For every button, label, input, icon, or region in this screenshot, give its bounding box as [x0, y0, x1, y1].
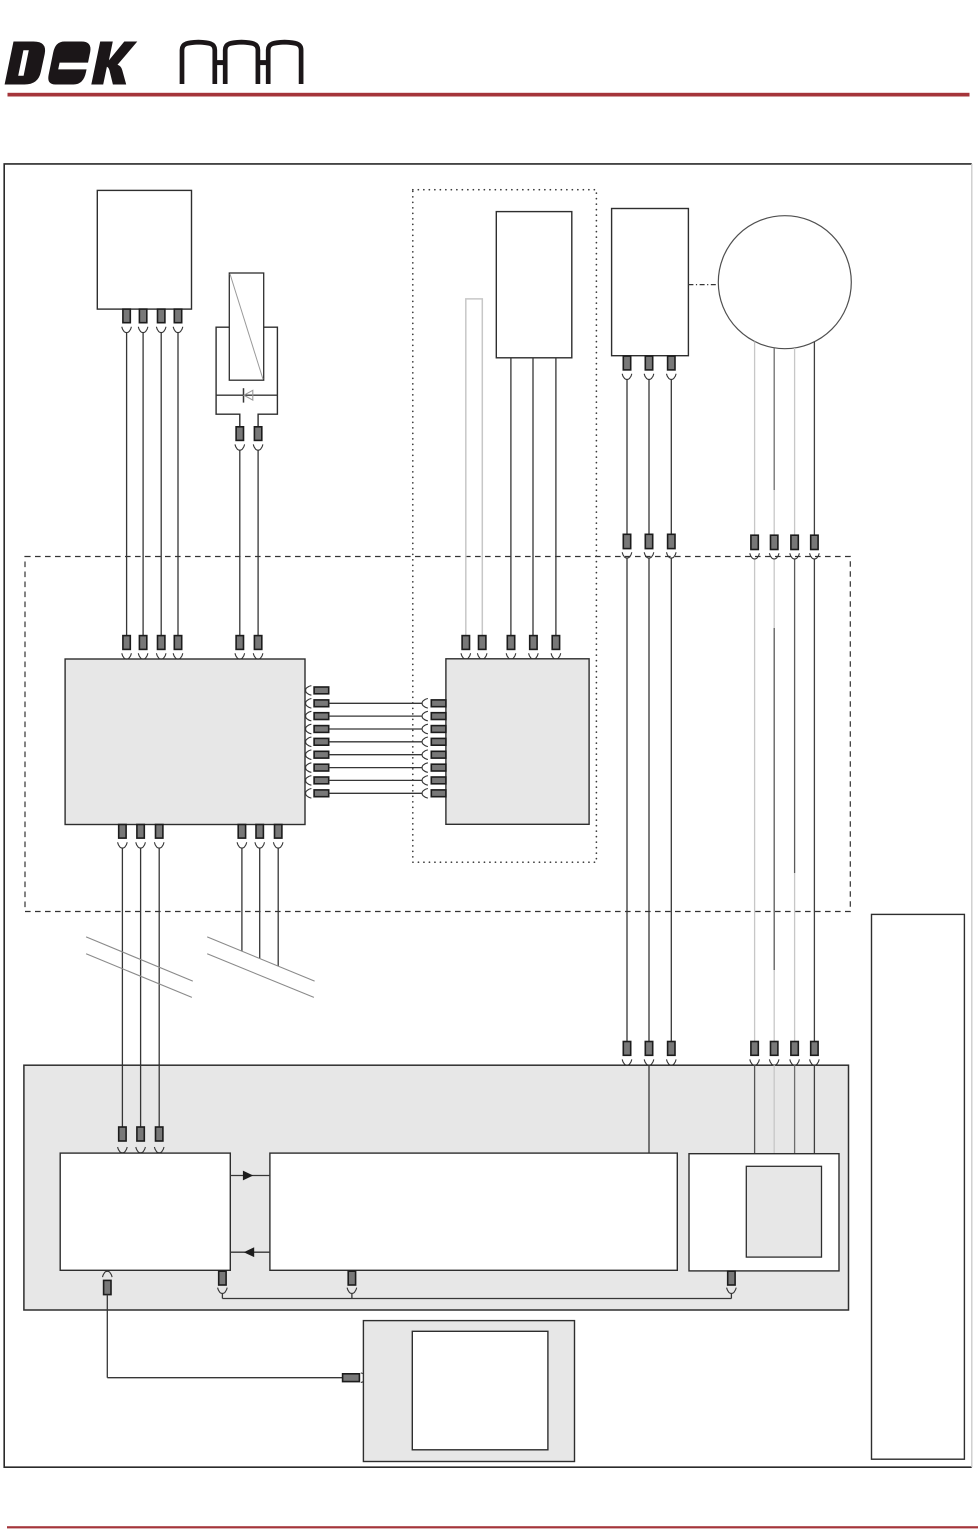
- gray box G2 (controller PCB): [446, 659, 589, 825]
- panel connector socket B3-1: [622, 1059, 632, 1065]
- arrowhead W2 to W1: [244, 1247, 255, 1257]
- B3 pin 2: [645, 356, 652, 370]
- connector pin above G1 way 6: [254, 636, 261, 650]
- harness wire C2: [140, 848, 142, 1065]
- G2 header pin row 6: [431, 751, 446, 758]
- G2 side socket row 2: [422, 699, 428, 709]
- DEK logo letter k: [91, 42, 137, 85]
- tall box T (cable duct): [872, 914, 965, 1459]
- dashed boundary box (machine section): [25, 557, 850, 912]
- G2 header pin row 7: [431, 764, 446, 771]
- ribbon wire row 3: [329, 715, 422, 717]
- motor wire 4 segment 2: [813, 559, 815, 1042]
- G1 header pin row 5: [314, 738, 329, 745]
- arrowhead W1 to W2: [243, 1171, 253, 1181]
- W1 connector socket 3: [154, 1147, 164, 1153]
- stub wire D2: [259, 848, 261, 959]
- dash-dot link B3 to motor: [688, 284, 718, 286]
- wire valve-1 to connector: [239, 450, 241, 636]
- harness wire C3: [158, 848, 160, 1065]
- motor wire 3 into panel: [794, 1065, 796, 1166]
- arrow link W2 to W1: [230, 1251, 270, 1253]
- panel connector pin B3-1: [623, 1042, 630, 1056]
- motor wire 2 segment 4: [773, 628, 775, 970]
- motor wire 3 segment 2: [794, 559, 796, 873]
- G1 bottom socket D2: [255, 842, 265, 848]
- G2 side socket row 6: [422, 750, 428, 760]
- connector pin above G1 way 5: [236, 636, 243, 650]
- W1 connector socket 2: [136, 1147, 146, 1153]
- W1 connector pin 3: [156, 1127, 163, 1141]
- wire B1-3 to connector: [160, 332, 162, 635]
- wire B3-2 into panel: [648, 1065, 650, 1153]
- inline connector pin B3-3: [668, 534, 675, 548]
- G2 header pin row 5: [431, 738, 446, 745]
- motor wire 2 segment 3: [773, 559, 775, 628]
- motor wire 2 segment 2: [773, 490, 775, 535]
- inline socket to display: [361, 1373, 367, 1383]
- motor wire 1 into panel: [754, 1065, 756, 1166]
- connector socket on G2 way 1: [461, 653, 471, 659]
- G2 side socket row 4: [422, 724, 428, 734]
- B3 pin 1: [623, 356, 630, 370]
- B1 pin 3: [158, 309, 165, 323]
- connector pin above G1 way 1: [123, 636, 130, 650]
- harness wire C1 into panel: [121, 1065, 123, 1127]
- panel connector pin B3-3: [668, 1042, 675, 1056]
- ribbon wire row 2: [329, 702, 422, 704]
- B1 pin 1: [123, 309, 130, 323]
- W1 bus socket: [218, 1288, 228, 1294]
- motor wire 2 into panel: [773, 1065, 775, 1166]
- connector pin above G1 way 3: [158, 636, 165, 650]
- G1 bottom pin D1: [238, 825, 245, 839]
- W1 bottom socket (inverted): [103, 1271, 113, 1277]
- valve V1 coil diagonal: [230, 274, 263, 379]
- inline connector socket motor-1: [750, 553, 760, 559]
- G1 header pin row 2: [314, 700, 329, 707]
- B3 socket 3: [667, 374, 677, 380]
- G1 bottom pin C2: [137, 825, 144, 839]
- panel bus wire: [222, 1298, 731, 1300]
- connector pin above G2 way 4: [530, 636, 537, 650]
- G2 header pin row 3: [431, 713, 446, 720]
- motor M1 circle: [718, 216, 851, 349]
- panel connector socket B3-3: [667, 1059, 677, 1065]
- inline connector socket motor-2: [769, 553, 779, 559]
- B3 pin 3: [668, 356, 675, 370]
- cable break slash 1a: [86, 937, 193, 981]
- ribbon wire row 6: [329, 754, 422, 756]
- G1 edge socket row 2: [306, 699, 312, 709]
- connector pin above G2 way 3: [507, 636, 514, 650]
- wire B3-3 lower run: [670, 558, 672, 1042]
- B3 socket 2: [644, 374, 654, 380]
- white box W2 (main controller): [270, 1153, 677, 1270]
- W3 bus stub: [730, 1293, 732, 1298]
- G1 bottom socket C2: [136, 842, 146, 848]
- header red rule: [8, 93, 970, 97]
- G1 edge socket row 5: [306, 737, 312, 747]
- valve pin 2: [254, 427, 261, 441]
- suppression diode D1 cathode bar: [243, 388, 245, 402]
- W1 connector pin 1: [119, 1127, 126, 1141]
- stub wire D1: [241, 848, 243, 951]
- G2 header pin row 2: [431, 700, 446, 707]
- light ribbon cable loop: [466, 299, 483, 641]
- W1 bus stub: [221, 1293, 223, 1298]
- box B2 (sensor head unit): [496, 212, 572, 358]
- inline connector pin B3-2: [645, 534, 652, 548]
- G2 side socket row 8: [422, 776, 428, 786]
- dotted boundary box (sub-assembly): [413, 190, 597, 863]
- motor wire 3 segment 1: [794, 348, 796, 535]
- wire B1-2 to connector: [142, 332, 144, 635]
- wire B2-2 to connector: [532, 358, 534, 636]
- wire B3-1 lower run: [626, 558, 628, 1042]
- G1 edge socket row 7: [306, 763, 312, 773]
- inline connector pin motor-4: [811, 535, 818, 549]
- B1 pin 2: [139, 309, 146, 323]
- G1 header pin row 7: [314, 764, 329, 771]
- inline connector pin motor-1: [751, 535, 758, 549]
- connector socket on G2 way 3: [506, 653, 516, 659]
- inline connector socket motor-3: [790, 553, 800, 559]
- cable break slash 2a: [207, 937, 314, 981]
- wire B3-3 upper run: [670, 379, 672, 534]
- connector socket on G1 way 5: [235, 653, 245, 659]
- inline connector pin motor-3: [791, 535, 798, 549]
- cable break slash 2b: [207, 954, 314, 998]
- wire B3-2 upper run: [648, 379, 650, 534]
- G1 header pin row 9: [314, 790, 329, 797]
- wire into display box: [366, 1377, 412, 1379]
- B1 socket 1: [122, 327, 132, 333]
- harness wire C1: [121, 848, 123, 1065]
- panel connector socket motor-4: [810, 1059, 820, 1065]
- arrow link W1 to W2: [230, 1175, 270, 1177]
- wire B1-1 to connector: [126, 332, 128, 635]
- connector socket on G1 way 1: [122, 653, 132, 659]
- ribbon wire row 9: [329, 792, 422, 794]
- G2 side socket row 3: [422, 711, 428, 721]
- panel connector socket motor-1: [750, 1059, 760, 1065]
- G1 header pin row 8: [314, 777, 329, 784]
- box B1 (top-left unit): [97, 190, 191, 309]
- wire B3-1 upper run: [626, 379, 628, 534]
- B1 pin 4: [174, 309, 181, 323]
- panel connector pin motor-1: [751, 1042, 758, 1056]
- connector pin above G2 way 1: [462, 636, 469, 650]
- panel connector socket motor-3: [790, 1059, 800, 1065]
- connector socket on G2 way 2: [477, 653, 487, 659]
- G2 side socket row 9: [422, 789, 428, 799]
- wire B2-1 to connector: [510, 358, 512, 636]
- G2 side socket row 5: [422, 737, 428, 747]
- cable break slash 1b: [86, 954, 192, 998]
- panel connector pin motor-4: [811, 1042, 818, 1056]
- G2 side socket row 7: [422, 763, 428, 773]
- G1 edge socket row 3: [306, 711, 312, 721]
- wire B2-3 to connector: [555, 358, 557, 636]
- inline connector socket B3-2: [644, 552, 654, 558]
- B1 socket 3: [156, 327, 166, 333]
- inline connector socket B3-3: [667, 552, 677, 558]
- inline connector pin B3-1: [623, 534, 630, 548]
- W1 bottom pin: [104, 1280, 111, 1294]
- harness wire C3 into panel: [158, 1065, 160, 1127]
- panel connector pin motor-2: [771, 1042, 778, 1056]
- motor wire 1 segment 1: [754, 342, 756, 536]
- panel connector pin motor-3: [791, 1042, 798, 1056]
- motor wire 4 segment 1: [813, 342, 815, 535]
- inline connector pin motor-2: [771, 535, 778, 549]
- ribbon wire row 8: [329, 779, 422, 781]
- box B3 (drive unit): [612, 209, 689, 356]
- inline connector socket motor-4: [810, 553, 820, 559]
- G1 header pin row 1: [314, 687, 329, 694]
- ribbon wire row 4: [329, 728, 422, 730]
- suppression diode D1 line: [216, 394, 277, 396]
- G2 header pin row 9: [431, 790, 446, 797]
- valve socket 2: [253, 444, 263, 450]
- G1 header pin row 3: [314, 713, 329, 720]
- G1 edge socket row 1: [306, 686, 312, 696]
- motor wire 2 segment 1: [773, 348, 775, 490]
- suppression diode D1 triangle: [244, 390, 253, 400]
- gray box S (driver sub-board): [746, 1166, 821, 1257]
- white box W3 (aux module): [689, 1154, 839, 1271]
- G1 bottom socket C1: [118, 842, 128, 848]
- white box W4 (display): [412, 1331, 548, 1450]
- W2 bus socket: [347, 1288, 357, 1294]
- G1 edge socket row 6: [306, 750, 312, 760]
- G2 header pin row 8: [431, 777, 446, 784]
- earth wire vertical run: [106, 1295, 108, 1378]
- G1 header pin row 6: [314, 751, 329, 758]
- connector pin above G2 way 5: [552, 636, 559, 650]
- harness wire C2 into panel: [140, 1065, 142, 1127]
- white box W1 (PSU module): [60, 1153, 230, 1270]
- motor wire 4 into panel: [813, 1065, 815, 1166]
- G1 header pin row 4: [314, 726, 329, 733]
- G1 bottom socket D1: [237, 842, 247, 848]
- wire B1-4 to connector: [177, 332, 179, 635]
- DEK logo letter e: [48, 42, 92, 85]
- connector socket on G1 way 6: [253, 653, 263, 659]
- gray box G1 (interface PCB): [65, 659, 305, 825]
- connector pin above G1 way 2: [139, 636, 146, 650]
- G1 bottom socket D3: [273, 842, 283, 848]
- earth wire horizontal run: [107, 1377, 342, 1379]
- motor wire 2 segment 5: [773, 970, 775, 1042]
- G1 bottom socket C3: [154, 842, 164, 848]
- W1 connector socket 1: [118, 1147, 128, 1153]
- G1 bottom pin D3: [275, 825, 282, 839]
- DEK logo letter D: [5, 42, 46, 85]
- connector pin above G1 way 4: [174, 636, 181, 650]
- ribbon wire row 7: [329, 767, 422, 769]
- G1 bottom pin C3: [156, 825, 163, 839]
- stub wire D3: [277, 848, 279, 966]
- inline connector socket B3-1: [622, 552, 632, 558]
- G1 edge socket row 8: [306, 776, 312, 786]
- panel connector socket B3-2: [644, 1059, 654, 1065]
- valve socket 1: [235, 444, 245, 450]
- W2 bus stub: [351, 1293, 353, 1298]
- gray box G4 (display housing): [363, 1321, 574, 1462]
- motor wire 3 segment 3: [794, 873, 796, 1042]
- W2 bus pin: [348, 1271, 355, 1285]
- ribbon wire row 5: [329, 741, 422, 743]
- G1 bottom pin D2: [256, 825, 263, 839]
- wire B3-2 lower run: [648, 558, 650, 1042]
- W3 bus pin: [728, 1271, 735, 1285]
- wire valve-2 to connector: [257, 450, 259, 636]
- motor wire 1 segment 2: [754, 559, 756, 1042]
- connector socket on G1 way 2: [138, 653, 148, 659]
- connector socket on G1 way 4: [173, 653, 183, 659]
- B1 socket 4: [173, 327, 183, 333]
- connector socket on G2 way 5: [551, 653, 561, 659]
- inline pin to display: [343, 1374, 360, 1382]
- connector socket on G2 way 4: [529, 653, 539, 659]
- connector pin above G2 way 2: [479, 636, 486, 650]
- B1 socket 2: [138, 327, 148, 333]
- G1 edge socket row 9: [306, 789, 312, 799]
- W3 bus socket: [727, 1288, 737, 1294]
- G1 edge socket row 4: [306, 724, 312, 734]
- panel connector pin B3-2: [645, 1042, 652, 1056]
- W1 connector pin 2: [137, 1127, 144, 1141]
- footer red rule: [7, 1526, 978, 1528]
- DEK logo arches icon: [182, 42, 301, 84]
- connector socket on G1 way 3: [156, 653, 166, 659]
- valve pin 1: [236, 427, 243, 441]
- G2 header pin row 4: [431, 726, 446, 733]
- B3 socket 1: [622, 374, 632, 380]
- W1 bus pin: [219, 1271, 226, 1285]
- control panel enclosure: [24, 1065, 849, 1310]
- panel connector socket motor-2: [769, 1059, 779, 1065]
- G1 bottom pin C1: [119, 825, 126, 839]
- valve V1 coil body: [229, 273, 263, 380]
- valve V1 housing outline: [216, 327, 277, 427]
